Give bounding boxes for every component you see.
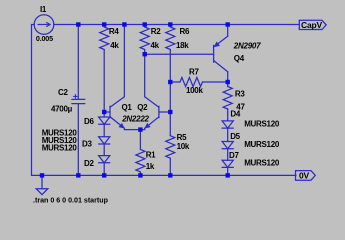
- svg-text:18k: 18k: [176, 41, 189, 50]
- svg-text:D5: D5: [230, 132, 240, 141]
- wire C2 bottom lead: [77, 104, 79, 176]
- svg-text:R2: R2: [151, 27, 161, 36]
- svg-text:D6: D6: [84, 117, 94, 126]
- svg-text:2N2907: 2N2907: [233, 42, 261, 51]
- svg-text:10k: 10k: [177, 142, 190, 151]
- svg-text:4700µ: 4700µ: [51, 105, 73, 114]
- wire R3 bottom to D4 anode: [227, 109, 229, 121]
- current source I1: [34, 15, 54, 35]
- capacitor C2: [72, 95, 85, 104]
- wire Q1 collector to top rail: [123, 25, 125, 97]
- junction D7 bottom rail: [226, 173, 230, 177]
- svg-text:MURS120: MURS120: [42, 144, 78, 153]
- svg-text:Q4: Q4: [234, 54, 245, 63]
- svg-text:CapV: CapV: [301, 20, 322, 30]
- svg-text:D7: D7: [229, 151, 239, 160]
- wire R2 bottom to Q2 collector: [144, 50, 146, 97]
- wire R6 bottom through R7 node and Q2 base node to R5: [169, 50, 171, 136]
- wire common emitters Q1 Q2: [124, 128, 144, 129]
- wire R4 bottom to Q1 base node: [103, 50, 105, 118]
- svg-text:R5: R5: [177, 133, 187, 142]
- svg-text:0V: 0V: [299, 170, 310, 180]
- junction R2 top rail: [143, 22, 147, 26]
- svg-text:4k: 4k: [151, 41, 160, 50]
- wire emitter node to R1: [139, 130, 141, 150]
- junction R1 bottom rail: [138, 173, 142, 177]
- diode D7: [222, 160, 233, 167]
- svg-text:MURS120: MURS120: [244, 140, 280, 149]
- resistor R4: [100, 25, 109, 50]
- svg-text:Q1: Q1: [122, 103, 133, 112]
- resistor R3: [223, 84, 232, 109]
- junction Q1 collector top rail: [122, 22, 126, 26]
- svg-text:2N2222: 2N2222: [121, 114, 149, 123]
- junction C2 bottom rail: [76, 173, 80, 177]
- wire R1 bottom to bottom rail: [139, 172, 141, 176]
- transistor Q2: [145, 97, 171, 129]
- diode D6: [99, 117, 110, 124]
- wire left column I1 return: [32, 25, 35, 176]
- svg-text:1k: 1k: [146, 162, 155, 171]
- wire D4 cathode to D5 anode: [227, 128, 229, 141]
- junction Q4 emitter top rail: [226, 22, 230, 26]
- wire D3 cathode to D2 anode: [103, 144, 105, 156]
- wire D6 cathode to D3 anode: [103, 124, 105, 137]
- diode D4: [222, 121, 233, 128]
- resistor R6: [166, 25, 175, 50]
- svg-text:R4: R4: [109, 27, 119, 36]
- svg-text:MURS120: MURS120: [244, 119, 280, 128]
- junction R5 bottom rail: [168, 173, 172, 177]
- svg-text:Q2: Q2: [137, 103, 148, 112]
- svg-text:MURS120: MURS120: [244, 158, 280, 167]
- junction ground bottom rail: [40, 173, 44, 177]
- wire R2 node to Q4 base: [145, 53, 214, 55]
- junction C2 top rail: [76, 22, 80, 26]
- ground: [36, 175, 48, 194]
- resistor R7: [180, 78, 203, 87]
- wire R7 left lead: [170, 81, 180, 83]
- svg-text:R7: R7: [189, 68, 199, 77]
- wire C2 top lead: [77, 25, 79, 100]
- wire D7 cathode to bottom rail: [227, 167, 229, 175]
- svg-text:R6: R6: [180, 27, 190, 36]
- svg-text:C2: C2: [58, 88, 68, 97]
- junction D2 bottom rail: [102, 173, 106, 177]
- wire D2 cathode to bottom rail: [103, 163, 105, 176]
- diode D3: [99, 137, 110, 144]
- svg-text:0.005: 0.005: [36, 34, 53, 43]
- resistor R5: [166, 136, 175, 159]
- svg-text:4k: 4k: [110, 41, 119, 50]
- flag CapV: [299, 20, 326, 29]
- junction R6 top rail: [168, 22, 172, 26]
- svg-text:D3: D3: [82, 140, 92, 149]
- resistor R1: [136, 149, 145, 172]
- wire top rail CapV net: [54, 24, 299, 26]
- diode D5: [222, 142, 233, 149]
- junction R7 right Q4 collector: [226, 80, 230, 84]
- wire R7 right lead to Q4 collector node: [203, 81, 228, 83]
- svg-text:D2: D2: [84, 159, 94, 168]
- transistor Q4: [214, 36, 228, 72]
- junction emitters R1 top: [138, 127, 142, 131]
- wire bottom rail 0V net: [32, 174, 297, 176]
- svg-text:R3: R3: [235, 90, 245, 99]
- junction R7 left R6 column: [168, 80, 172, 84]
- resistor R2: [140, 25, 149, 50]
- wire R5 bottom to bottom rail: [169, 158, 171, 175]
- svg-text:100k: 100k: [186, 86, 203, 95]
- wire D5 cathode to D7 anode: [227, 149, 229, 161]
- svg-text:R1: R1: [146, 151, 156, 160]
- wire Q4 emitter to top rail: [227, 25, 229, 37]
- junction R2 bottom Q4 base: [143, 52, 147, 56]
- flag 0V: [296, 171, 316, 181]
- svg-text:D4: D4: [230, 110, 240, 119]
- svg-text:.tran 0 6 0 0.01 startup: .tran 0 6 0 0.01 startup: [33, 196, 109, 204]
- junction Q2 base R5 column: [168, 110, 172, 114]
- wire Q4 collector to R3: [227, 72, 229, 87]
- junction R4 top rail: [102, 22, 106, 26]
- svg-text:I1: I1: [40, 5, 47, 14]
- diode D2: [99, 156, 110, 163]
- junction Q1 base D6 anode: [102, 110, 106, 114]
- transistor Q1: [104, 97, 124, 129]
